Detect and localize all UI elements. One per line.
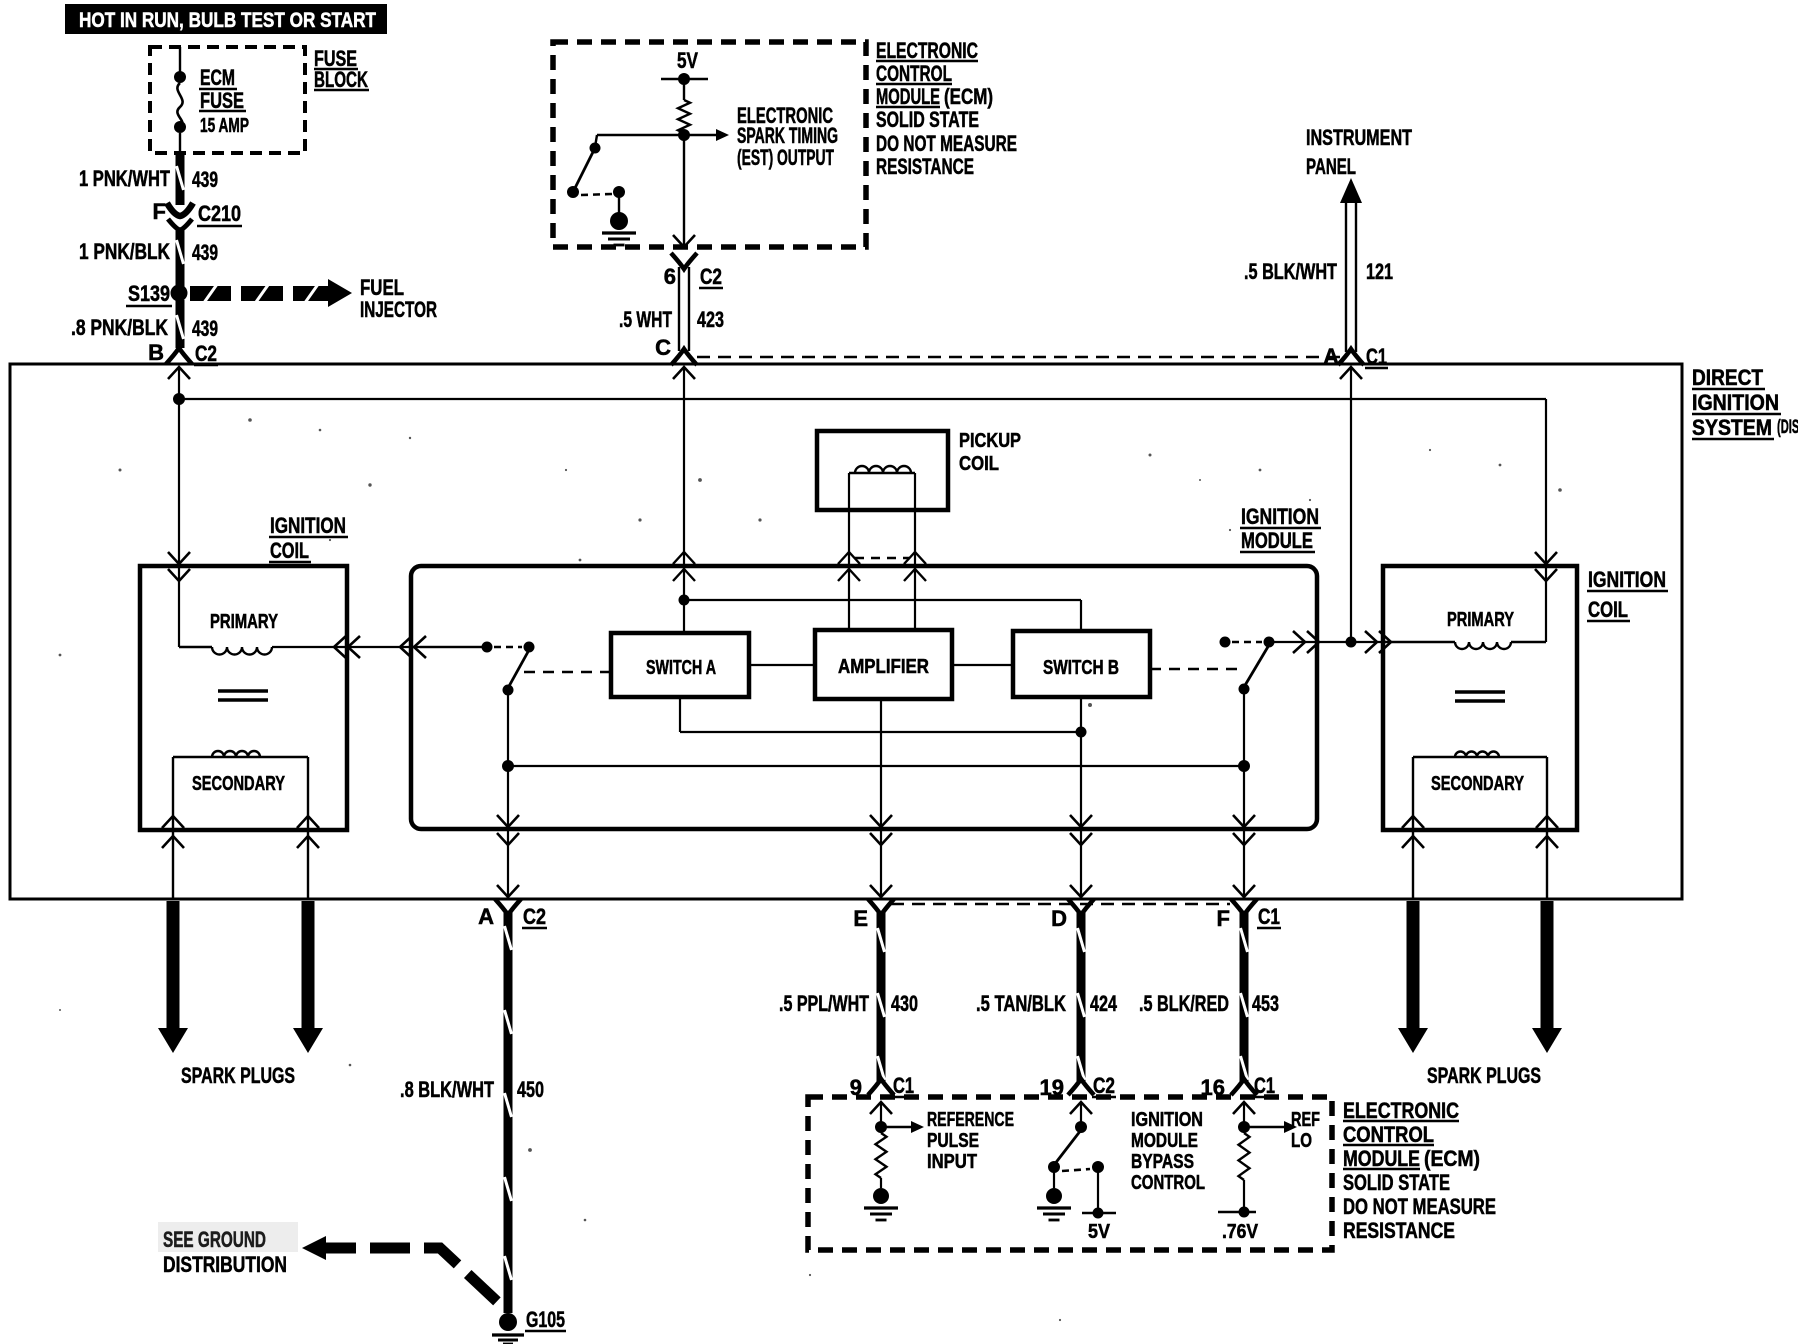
- svg-text:SWITCH A: SWITCH A: [646, 657, 716, 679]
- svg-text:INJECTOR: INJECTOR: [360, 297, 437, 322]
- svg-text:SECONDARY: SECONDARY: [1431, 773, 1524, 795]
- svg-text:ELECTRONIC: ELECTRONIC: [876, 38, 978, 63]
- svg-text:.5 BLK/RED: .5 BLK/RED: [1139, 991, 1229, 1016]
- svg-text:F: F: [1217, 906, 1230, 931]
- svg-text:(DIS): (DIS): [1777, 417, 1798, 438]
- svg-text:SOLID STATE: SOLID STATE: [1343, 1170, 1450, 1195]
- svg-text:COIL: COIL: [1588, 597, 1628, 622]
- svg-text:HOT IN RUN, BULB TEST OR START: HOT IN RUN, BULB TEST OR START: [79, 9, 376, 32]
- svg-text:450: 450: [517, 1077, 544, 1102]
- svg-text:ELECTRONIC: ELECTRONIC: [1343, 1098, 1459, 1123]
- svg-text:MODULE: MODULE: [876, 84, 940, 109]
- svg-text:.5 BLK/WHT: .5 BLK/WHT: [1244, 259, 1337, 284]
- svg-text:REFERENCE: REFERENCE: [927, 1109, 1014, 1131]
- svg-text:C2: C2: [523, 904, 546, 929]
- svg-text:.8 BLK/WHT: .8 BLK/WHT: [400, 1077, 494, 1102]
- svg-text:.5 WHT: .5 WHT: [619, 307, 672, 332]
- svg-text:IGNITION: IGNITION: [270, 513, 346, 538]
- svg-text:CONTROL: CONTROL: [1343, 1122, 1434, 1147]
- svg-text:IGNITION: IGNITION: [1692, 390, 1779, 415]
- svg-text:E: E: [853, 906, 868, 931]
- svg-text:MODULE: MODULE: [1241, 528, 1313, 553]
- svg-text:REF: REF: [1291, 1109, 1320, 1131]
- svg-text:(ECM): (ECM): [1424, 1146, 1480, 1171]
- svg-text:DIRECT: DIRECT: [1692, 365, 1763, 390]
- svg-text:C2: C2: [700, 264, 722, 289]
- svg-text:5V: 5V: [677, 48, 698, 73]
- svg-text:RESISTANCE: RESISTANCE: [1343, 1218, 1455, 1243]
- svg-text:G105: G105: [526, 1307, 565, 1332]
- svg-text:5V: 5V: [1088, 1221, 1111, 1243]
- svg-text:1 PNK/BLK: 1 PNK/BLK: [79, 239, 170, 264]
- svg-text:DISTRIBUTION: DISTRIBUTION: [163, 1252, 287, 1277]
- svg-text:BLOCK: BLOCK: [314, 67, 368, 92]
- svg-text:LO: LO: [1291, 1130, 1312, 1152]
- svg-text:FUSE: FUSE: [200, 88, 244, 113]
- svg-text:.8 PNK/BLK: .8 PNK/BLK: [71, 315, 168, 340]
- svg-text:DO NOT MEASURE: DO NOT MEASURE: [876, 131, 1017, 156]
- svg-text:DO NOT MEASURE: DO NOT MEASURE: [1343, 1194, 1496, 1219]
- svg-text:PICKUP: PICKUP: [959, 430, 1021, 452]
- svg-text:IGNITION: IGNITION: [1131, 1109, 1203, 1131]
- svg-text:C210: C210: [198, 201, 241, 226]
- svg-text:PRIMARY: PRIMARY: [210, 611, 278, 633]
- svg-text:MODULE: MODULE: [1131, 1130, 1198, 1152]
- svg-text:453: 453: [1252, 991, 1279, 1016]
- svg-text:AMPLIFIER: AMPLIFIER: [838, 656, 929, 678]
- svg-text:B: B: [148, 340, 164, 365]
- svg-text:1 PNK/WHT: 1 PNK/WHT: [79, 166, 170, 191]
- svg-text:SWITCH B: SWITCH B: [1043, 657, 1119, 679]
- svg-text:ECM: ECM: [200, 65, 235, 90]
- svg-text:CONTROL: CONTROL: [1131, 1172, 1205, 1194]
- svg-text:SOLID STATE: SOLID STATE: [876, 107, 979, 132]
- svg-text:S139: S139: [128, 281, 170, 306]
- svg-text:F: F: [153, 199, 166, 224]
- svg-text:COIL: COIL: [959, 453, 999, 475]
- svg-text:C1: C1: [1258, 904, 1280, 929]
- svg-text:SYSTEM: SYSTEM: [1692, 415, 1772, 440]
- svg-text:439: 439: [192, 240, 218, 265]
- svg-text:INSTRUMENT: INSTRUMENT: [1306, 125, 1412, 150]
- svg-text:423: 423: [697, 307, 724, 332]
- svg-text:6: 6: [664, 264, 676, 289]
- svg-text:C: C: [655, 335, 671, 360]
- svg-text:A: A: [478, 904, 494, 929]
- svg-text:.5 TAN/BLK: .5 TAN/BLK: [976, 991, 1066, 1016]
- svg-text:IGNITION: IGNITION: [1588, 567, 1666, 592]
- svg-text:430: 430: [891, 991, 918, 1016]
- svg-text:C2: C2: [195, 341, 217, 366]
- svg-text:424: 424: [1090, 991, 1118, 1016]
- svg-text:BYPASS: BYPASS: [1131, 1151, 1194, 1173]
- svg-text:(ECM): (ECM): [944, 84, 993, 109]
- svg-text:439: 439: [192, 316, 218, 341]
- svg-text:SPARK PLUGS: SPARK PLUGS: [1427, 1063, 1541, 1088]
- svg-text:D: D: [1051, 906, 1067, 931]
- svg-text:IGNITION: IGNITION: [1241, 504, 1319, 529]
- svg-text:(EST) OUTPUT: (EST) OUTPUT: [737, 145, 834, 170]
- svg-text:.5 PPL/WHT: .5 PPL/WHT: [779, 991, 869, 1016]
- svg-text:SPARK PLUGS: SPARK PLUGS: [181, 1063, 295, 1088]
- svg-text:PULSE: PULSE: [927, 1130, 979, 1152]
- svg-text:.76V: .76V: [1222, 1221, 1259, 1243]
- svg-text:MODULE: MODULE: [1343, 1146, 1420, 1171]
- svg-text:COIL: COIL: [270, 538, 309, 563]
- svg-text:RESISTANCE: RESISTANCE: [876, 154, 974, 179]
- svg-text:15 AMP: 15 AMP: [200, 115, 249, 137]
- svg-text:CONTROL: CONTROL: [876, 61, 952, 86]
- svg-text:439: 439: [192, 167, 218, 192]
- svg-text:PANEL: PANEL: [1306, 154, 1356, 179]
- svg-text:SECONDARY: SECONDARY: [192, 773, 285, 795]
- svg-text:PRIMARY: PRIMARY: [1447, 609, 1514, 631]
- svg-text:121: 121: [1366, 259, 1393, 284]
- svg-text:INPUT: INPUT: [927, 1151, 977, 1173]
